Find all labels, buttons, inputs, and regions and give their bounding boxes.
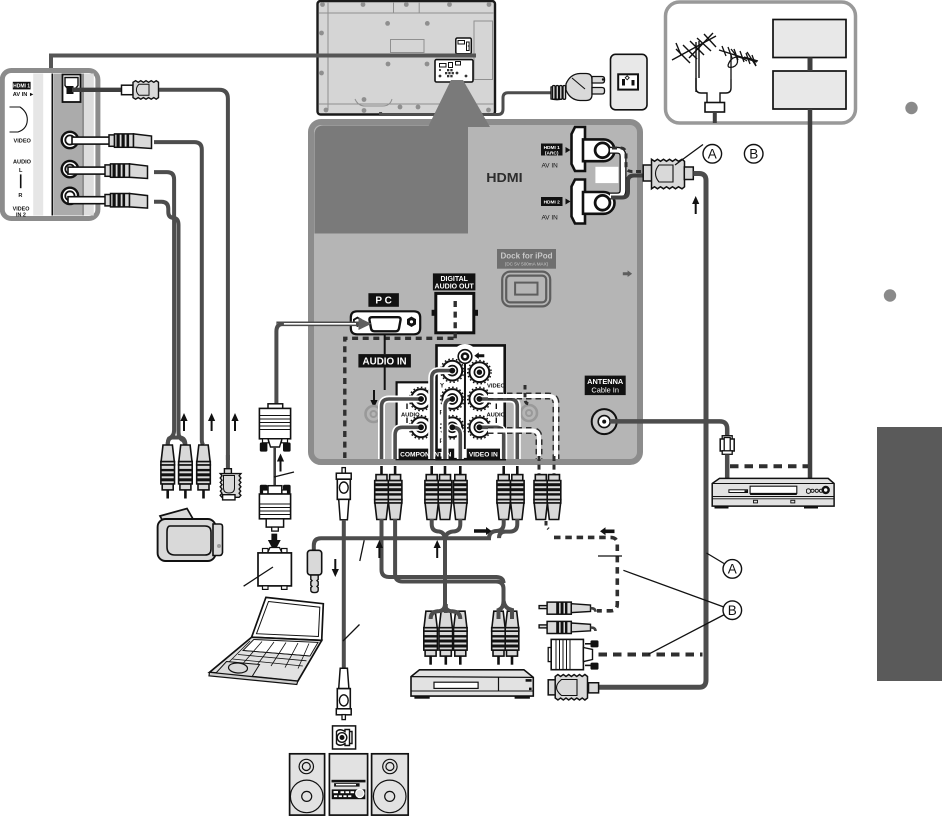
VGA connector upper (male, on cable) [259,404,290,452]
DVD player [411,670,533,699]
pointer tick on VGA link [274,472,294,477]
svg-text:B: B [728,603,737,618]
svg-text:AV IN: AV IN [542,214,559,221]
VIDEO jack [468,361,491,384]
dashed optical route on panel [454,301,457,338]
svg-text:DIGITAL: DIGITAL [440,276,468,283]
internal cable: PB jack to plug stem [445,396,455,459]
page margin bullet dot 2 [884,289,896,301]
DVD recorder / set-top box [712,478,834,508]
svg-text:AV IN: AV IN [542,163,559,170]
RF coax connector on antenna cable [720,436,734,479]
dashed fragment right of VIDEO IN box [525,385,530,404]
flow arrows below panel [332,559,339,577]
optical cable [342,520,346,669]
VHF antenna art [672,33,716,92]
HDMI cable plug at ports [643,159,693,189]
svg-text:HDMI 2: HDMI 2 [544,200,561,206]
sideways VGA connector (option B) [548,639,598,669]
antenna cable from coax jack to RF connector [610,421,727,437]
antenna / cable-satellite source box (top right) [666,2,856,123]
DVD player: audio plugs [492,611,506,665]
PC cable with arrow head into port [276,321,359,326]
svg-text:A: A [728,562,737,577]
ANTENNA Cable In label [585,376,626,396]
small right arrow on panel [623,270,632,277]
power cord from TV [381,93,551,115]
VGA connector lower (female) [259,485,290,531]
stereo system: centre unit [329,754,367,815]
internal cable: Y jack to plug stem [432,368,455,459]
component triple cable to DVD player [432,519,445,601]
video-in pair plugs below panel [497,466,511,520]
optical terminal icon [333,726,356,749]
VIDEO IN jack box with clamp tab [437,345,505,459]
RCA plug in side AUDIO R jack [68,194,148,209]
component/AV plugs below panel: pair 1 (audio) [375,466,389,520]
svg-text:(DC 5V 500mA MAX): (DC 5V 500mA MAX) [505,262,549,267]
HDMI 1 side label [13,82,31,90]
HDMI port 1 [572,127,615,171]
DIGITAL AUDIO OUT label [433,273,476,290]
svg-text:VIDEO IN: VIDEO IN [469,451,498,458]
white dashed cable: audio R to dashed stem right [488,431,539,460]
satellite box [773,71,846,109]
audio pair cables to DVD player [382,519,504,583]
dashed route HDMI1 to plug (option A) [612,148,641,172]
svg-text:IN 2: IN 2 [16,212,26,218]
zoom callout wedge from TV to panel [428,80,490,127]
video cable from side panel [154,142,204,445]
TV side-panel zoom view (left) [2,71,98,219]
optical audio port [432,293,478,332]
optical cable top plug [336,468,351,520]
PC audio mini jack (circled, grey) [366,406,382,422]
svg-text:Y: Y [440,384,444,390]
long HDMI cable A: from plug right, down to bottom-right HDMI plug [599,174,706,688]
sideways HDMI plug (option A cable end) [548,675,598,701]
COMPONENT IN jack box [397,382,435,459]
internal cable: component audio R to plug stem [395,424,424,459]
component AUDIO L jack [409,387,432,410]
UHF antenna art [719,46,758,79]
HDMI cable into side panel [72,81,228,460]
stereo system: right speaker [372,754,409,815]
small terminal panel upper [456,38,472,54]
laptop [209,597,323,684]
side HDMI port [63,75,81,103]
VGA-laptop adapter [258,548,291,590]
zoom callout line from TV side terminals to side-panel detail (left) [51,56,476,73]
svg-text:L: L [19,168,23,174]
pointer tick on optical cable [343,625,360,642]
page margin bullet dot 1 [905,102,917,114]
Dock for iPod port [502,272,550,307]
svg-text:Cable In: Cable In [591,386,619,395]
dark sidebar tab (right page edge) [877,427,942,681]
svg-text:VIDEO: VIDEO [487,384,506,390]
video AUDIO R jack [468,416,491,439]
svg-text:(ARC): (ARC) [545,150,559,156]
option B dashed cable from dashed plugs [546,521,549,529]
camcorder AV plug video [161,438,210,499]
label A (bottom) [723,560,742,579]
svg-text:HDMI: HDMI [486,171,522,185]
antenna lead-in lines to combiner [696,78,707,102]
component AUDIO R jack [409,416,432,439]
internal cable: component audio L to plug stem [382,396,424,459]
Y jack [441,359,464,382]
recessed dark area of rear panel [315,126,469,234]
VIDEO IN strip label [467,449,500,459]
dashed VGA cable (option B) [599,653,703,657]
alignment line between VGA connectors [273,447,276,486]
Dock for iPod label [497,249,556,269]
svg-text:AV IN ►: AV IN ► [13,92,35,98]
pointer lines to label B (bottom) [623,570,723,607]
sideways RCA plug 1 (to recorder, option B) [539,602,595,614]
combiner / balun box [705,103,725,113]
svg-text:AUDIO: AUDIO [13,159,32,165]
camcorder HDMI plug [220,455,241,500]
solid route HDMI2 to plug [611,176,645,198]
white cable loop joining HDMI jacks [610,150,623,196]
HDMI port 2 [572,180,615,224]
screws on TV back [319,2,491,113]
white spacer square between HDMI ports [595,167,618,183]
svg-text:AUDIO IN: AUDIO IN [363,356,407,367]
video AUDIO L jack [468,387,491,410]
audio R cable from side panel [154,202,185,445]
left arrow beside clamp [474,352,484,359]
video pair cables to PC audio lead [321,519,504,538]
side VIDEO jack [62,132,78,148]
DVD player: component plugs [424,611,438,665]
cable box [773,20,846,58]
HDMI plug at side panel [122,85,134,95]
svg-text:B: B [749,147,758,162]
svg-text:P C: P C [375,296,392,307]
AUDIO IN label with link line from PC port [384,334,386,354]
component triple plugs below panel [425,466,439,520]
svg-text:AUDIO: AUDIO [401,413,420,419]
svg-text:Dock for iPod: Dock for iPod [500,251,552,260]
up arrow beside cable A [692,196,699,214]
white dashed cable: audio L to dashed stem right [488,396,556,459]
clamp line down between columns [464,364,466,450]
RCA plug in side VIDEO jack [72,134,152,149]
camcorder [158,509,223,562]
internal cable: video audio R to left plug stem [477,424,504,459]
svg-text:A: A [708,147,717,162]
TV rear view (top centre) [318,1,496,115]
left arrow on dashed cable [600,527,615,535]
label A (top) [703,145,722,164]
label B (bottom) [723,601,742,620]
pointer tick on audio lead [360,540,364,561]
big black insert arrow [269,534,280,551]
PC audio mini plug [307,538,321,592]
dashed RF link to recorder [730,464,808,468]
svg-text:R: R [18,193,22,199]
long antenna line from box down to recorder [808,109,813,479]
audio L cable from side panel [154,172,174,445]
svg-text:AUDIO OUT: AUDIO OUT [435,284,475,291]
pointer tick crossing dashed cable [598,555,622,557]
svg-text:HDMI 1: HDMI 1 [13,84,30,90]
HDMI 2 label [541,197,571,221]
antenna coax jack [592,409,617,434]
RCA plug in side AUDIO L jack [68,164,148,179]
svg-text:VIDEO: VIDEO [14,139,32,145]
internal cable: video audio L to right plug stem [477,396,518,459]
internal cable: PR jack to plug stem [449,424,460,459]
dashed option plugs below panel [534,456,561,520]
PC D-sub port [351,311,420,334]
side AUDIO R jack [62,188,78,204]
up arrows above camcorder plugs [180,413,187,431]
pointer line to label A [675,145,703,166]
wall outlet [611,54,648,110]
HDMI 1 (ARC) label [541,144,571,170]
spare mini jack right (circled, grey) [521,405,537,421]
power plug [551,74,605,101]
link between boxes [808,58,813,72]
label B (top) [744,145,763,164]
side AUDIO L jack [62,161,78,177]
down arrow into PC audio mini jack [370,390,377,408]
svg-text:HDMI 1: HDMI 1 [544,145,561,151]
optical cable bottom plug [336,668,351,719]
sideways RCA plug 2 (option B) [539,621,595,633]
pointer line into adapter [244,567,273,586]
P C label [368,293,399,307]
PB jack [441,387,464,410]
COMPONENT IN strip label [398,449,455,459]
cable-guide notch curve [10,107,28,132]
PC column: cable from PC port [276,324,284,404]
stereo system: left speaker [290,754,325,815]
pointer line to label A (bottom) [707,553,725,564]
TV rear terminal panel (large, centre) [311,122,640,462]
side terminal panel lower [435,60,473,82]
PR jack [441,416,464,439]
